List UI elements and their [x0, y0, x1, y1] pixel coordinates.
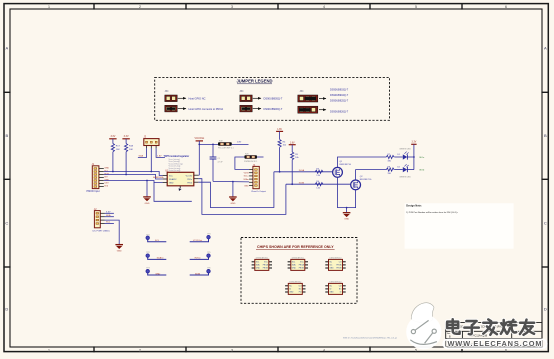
svg-text:1.3k: 1.3k [316, 175, 320, 177]
svg-text:PMOD Input: PMOD Input [87, 190, 100, 193]
wire J3 pin1 to SDA stub [138, 148, 147, 157]
border column ticks top [94, 3, 462, 10]
svg-text:CHIPS SHOWN ARE FOR REFERENCE: CHIPS SHOWN ARE FOR REFERENCE ONLY [257, 245, 334, 249]
svg-text:A: A [544, 46, 547, 51]
jumper legend 3-pin symbol row 1 (shunt on 2-3) [298, 88, 349, 102]
power 3.3V (R17 pullup) [109, 135, 116, 143]
connector J2 (I2C port) [93, 207, 120, 244]
svg-text:SDAtst: SDAtst [157, 257, 164, 260]
svg-text:C: C [5, 221, 8, 226]
svg-text:DS90UB906Q-T: DS90UB906Q-T [264, 107, 283, 111]
LED D2 [394, 164, 414, 178]
power VCCIO [194, 137, 218, 175]
svg-text:ISOA: ISOA [299, 169, 305, 172]
svg-text:GND: GND [330, 292, 335, 294]
wire U1 PROa loop (outer U) [198, 179, 286, 215]
reference chip U2 [252, 257, 272, 270]
watermark chinese text halo [447, 319, 534, 335]
transistor Q2 [351, 176, 372, 190]
watermark url text [447, 339, 542, 348]
svg-text:PROB: PROB [336, 268, 342, 270]
title block size/doc/rev row [447, 333, 526, 339]
svg-text:C: C [544, 221, 547, 226]
svg-text:GND: GND [104, 167, 109, 169]
svg-text:DS90UB926Q-T: DS90UB926Q-T [330, 110, 349, 113]
power 1.8V (ISOA pullup) [276, 129, 283, 139]
watermark url pill [443, 339, 547, 348]
jumper legend open symbol 1 [165, 95, 206, 102]
svg-text:GND: GND [256, 268, 261, 270]
svg-text:Host GPIO connects to PROA: Host GPIO connects to PROA [189, 107, 224, 111]
svg-text:DS90UB903Q-T: DS90UB903Q-T [330, 88, 349, 91]
svg-text:4.7uF: 4.7uF [218, 161, 224, 163]
IC U1 (isolator/level translator) [163, 169, 199, 191]
wire ISOA row [274, 171, 333, 173]
svg-text:SDA: SDA [139, 155, 144, 158]
svg-text:SCL: SCL [256, 262, 259, 264]
wire J3 pin2 down to SCL net [150, 148, 152, 171]
svg-text:3.3V: 3.3V [106, 212, 111, 214]
resistor R4 [278, 139, 287, 172]
svg-text:Size: Size [447, 333, 451, 335]
wire GND net J1 to U1 [104, 181, 163, 183]
svg-text:A2ARDSDA: A2ARDSDA [153, 176, 164, 179]
resistor R20 (DNI block) [235, 154, 264, 170]
wire GND stem to ground [146, 181, 148, 197]
svg-text:VCCIOtst: VCCIOtst [193, 239, 203, 242]
svg-text:D: D [5, 307, 8, 312]
border row ticks left [3, 92, 10, 267]
transistor Q1 [333, 161, 352, 177]
svg-text:1) PCB Part Number will be wri: 1) PCB Part Number will be written here … [406, 211, 459, 214]
svg-text:D: D [544, 307, 547, 312]
resistor R18 [125, 144, 134, 176]
svg-text:BSS138LT1G: BSS138LT1G [340, 164, 352, 166]
svg-text:SDA/RX: SDA/RX [169, 178, 177, 181]
svg-text:DS90UB905Q-T: DS90UB905Q-T [264, 97, 283, 101]
jumper legend dashed frame [155, 77, 390, 120]
header J4 (output) [243, 163, 266, 193]
svg-text:GND: GND [230, 203, 235, 205]
svg-text:I2C PORT (GND): I2C PORT (GND) [93, 230, 110, 232]
svg-text:SCLo: SCLo [244, 176, 250, 178]
svg-text:GND: GND [117, 251, 122, 253]
reference chip U5 [285, 281, 305, 294]
jumper header J3 [144, 135, 160, 149]
resistor R7 (LED row1) [386, 154, 394, 163]
svg-text:PULLUP/JMP 0.1: PULLUP/JMP 0.1 [218, 148, 235, 150]
test point TP3 [146, 268, 166, 276]
svg-text:ISOB: ISOB [195, 273, 201, 275]
ground G1 [143, 197, 151, 205]
svg-text:DS90UB904Q-T: DS90UB904Q-T [330, 94, 349, 97]
svg-text:Design Note:: Design Note: [406, 205, 422, 208]
capacitor C1 [210, 144, 224, 181]
wire ground stem under header [232, 182, 234, 197]
wire Q1 drain to LED row 1 [338, 157, 387, 167]
wire SDA net J1 to U1 [104, 175, 163, 180]
U1 pin function list [169, 158, 183, 172]
svg-text:1.8V: 1.8V [237, 141, 242, 143]
wire J3 pin3 to 1.8V stub [156, 148, 165, 157]
power 1.8V (ISOB pullup) [289, 142, 296, 152]
svg-text:JUMPER LEGEND: JUMPER LEGEND [236, 79, 272, 84]
svg-text:ChanOr Output: ChanOr Output [251, 190, 266, 193]
svg-text:PROa: PROa [187, 179, 192, 181]
svg-text:Vccio (int-reg): Vccio (int-reg) [169, 169, 181, 172]
svg-text:BSS138LT1G: BSS138LT1G [360, 179, 372, 181]
svg-text:VD33: VD33 [244, 173, 250, 175]
svg-text:SDAo: SDAo [243, 178, 249, 181]
power 3.3V (R18 pullup) [122, 135, 129, 143]
svg-text:GND: GND [145, 203, 150, 205]
svg-text:A: A [5, 46, 8, 51]
chips reference dashed frame [241, 238, 357, 304]
svg-text:DS90UB925Q-T: DS90UB925Q-T [330, 99, 349, 102]
ground G3 [343, 213, 351, 221]
power 3.3V (LED rail) [411, 142, 425, 172]
svg-text:GND: GND [344, 219, 349, 221]
resistor R5 [291, 152, 300, 185]
chips reference title [256, 245, 335, 249]
watermark circle [406, 314, 441, 349]
svg-text:3.3V: 3.3V [124, 135, 129, 138]
title block frame lines [446, 322, 542, 347]
svg-text:GND: GND [292, 268, 297, 270]
svg-text:VCCIOtst: VCCIOtst [194, 137, 204, 140]
ground G2 [229, 197, 237, 205]
svg-text:ISOb: ISOb [419, 170, 425, 172]
svg-text:PROb: PROb [187, 182, 192, 184]
jumper legend open symbol 2 [240, 95, 283, 102]
border column ticks bottom [94, 346, 462, 352]
wire GND drop under U1 [154, 183, 192, 202]
jumper legend shorted symbol 1 [165, 105, 224, 112]
svg-text:GND: GND [155, 273, 160, 275]
svg-text:B: B [5, 133, 8, 138]
svg-text:INTtst: INTtst [195, 257, 201, 260]
svg-text:D1: D1 [397, 154, 399, 156]
connector J1 (PMOD input) [87, 162, 110, 193]
reference chip U6 [325, 281, 345, 294]
test point TP6 [190, 268, 211, 276]
svg-text:SVN @: /trunk/boards/Schematic: SVN @: /trunk/boards/Schematic/DS90UB90x… [343, 336, 397, 339]
svg-text:GND: GND [289, 292, 294, 294]
wire Q2 drain to LED row 2 [356, 170, 387, 180]
svg-text:3.3V: 3.3V [412, 142, 417, 144]
svg-text:3.3V: 3.3V [104, 182, 109, 184]
test point TP2 [146, 252, 166, 260]
reference chip U3 [288, 257, 308, 270]
resistor R17 [111, 144, 120, 173]
svg-text:PROA: PROA [299, 264, 305, 267]
svg-text:GND: GND [330, 268, 335, 270]
test point TP1 [146, 234, 166, 242]
resistor R6 (ISOB series) [315, 181, 323, 190]
svg-text:ISOa: ISOa [419, 157, 425, 159]
wire U1 PROb loop (inner U) [198, 172, 274, 208]
jumper legend shorted symbol 2 [240, 105, 283, 112]
svg-text:PWRBUS/JK 1: PWRBUS/JK 1 [244, 161, 258, 163]
svg-text:GND: GND [169, 182, 174, 184]
svg-text:PROB: PROB [299, 268, 305, 270]
svg-text:ISOB: ISOB [299, 182, 305, 184]
svg-text:TCPS isolator/regulator: TCPS isolator/regulator [164, 155, 190, 158]
row letters [5, 46, 547, 312]
svg-text:Host GPIO NC: Host GPIO NC [189, 97, 206, 101]
resistor R3 (ISOA series) [315, 169, 323, 178]
svg-text:GND: GND [244, 185, 249, 187]
svg-text:PROA: PROA [336, 264, 342, 267]
wire SCL net J1 to U1 [104, 172, 163, 176]
test point TP5 [190, 252, 211, 260]
watermark leaf [411, 303, 434, 323]
jumper legend 3-pin symbol row 2 (shunt on 1-2) [298, 106, 349, 113]
watermark chinese text [447, 319, 534, 335]
test point TP4 [190, 234, 211, 242]
svg-text:D2: D2 [397, 167, 399, 169]
svg-text:SCL: SCL [292, 262, 296, 264]
resistor R8 (LED row2) [386, 166, 394, 175]
svg-text:10K: 10K [116, 149, 120, 151]
svg-text:1.8V: 1.8V [157, 156, 162, 158]
LED D1 [394, 149, 414, 160]
svg-text:B: B [544, 133, 547, 138]
svg-text:3.3V: 3.3V [110, 135, 115, 138]
wire cap rail to header [213, 180, 249, 183]
svg-text:GREEN LED: GREEN LED [399, 149, 411, 151]
watermark logo strokes [410, 320, 437, 344]
svg-text:VCC/Vtr: VCC/Vtr [186, 174, 193, 177]
svg-text:GREEN LED: GREEN LED [399, 176, 411, 178]
svg-text:SDA: SDA [106, 214, 111, 217]
svg-text:PROA: PROA [263, 264, 269, 267]
wire Q1/Q2 source rail [338, 177, 356, 207]
svg-text:10K: 10K [129, 149, 133, 151]
design note white panel [405, 203, 514, 249]
reference chip U4 [325, 257, 345, 270]
svg-text:PROB: PROB [263, 268, 269, 270]
wire ISOB row [286, 183, 351, 185]
jumper legend title [236, 79, 272, 84]
border row ticks right [541, 92, 548, 267]
svg-text:WWW.ELECFANS.COM: WWW.ELECFANS.COM [447, 339, 542, 348]
svg-text:1.3k: 1.3k [316, 188, 320, 190]
ground G4 [115, 245, 123, 253]
resistor R19 (DNI pullup block) [218, 141, 249, 150]
